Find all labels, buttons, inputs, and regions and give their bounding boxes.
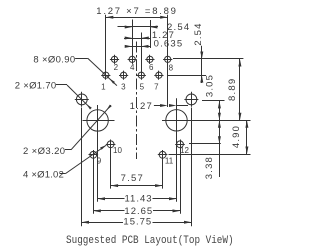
svg-text:4 ×Ø1.02: 4 ×Ø1.02 (23, 169, 64, 180)
svg-text:3.05: 3.05 (205, 74, 216, 97)
svg-text:5: 5 (140, 83, 145, 92)
svg-text:12: 12 (180, 146, 189, 155)
svg-text:1.27: 1.27 (130, 101, 153, 112)
svg-text:3: 3 (121, 83, 126, 92)
svg-text:8: 8 (169, 64, 174, 73)
svg-text:2: 2 (114, 63, 119, 72)
svg-text:3.38: 3.38 (204, 156, 215, 179)
svg-text:2 ×Ø1.70: 2 ×Ø1.70 (15, 81, 57, 92)
svg-text:1: 1 (101, 83, 106, 92)
svg-text:11.43: 11.43 (124, 194, 152, 205)
svg-text:15.75: 15.75 (123, 217, 152, 228)
svg-text:2.54: 2.54 (193, 22, 204, 45)
svg-text:8 ×Ø0.90: 8 ×Ø0.90 (33, 54, 75, 65)
svg-text:2 ×Ø3.20: 2 ×Ø3.20 (23, 146, 66, 157)
svg-text:9: 9 (97, 157, 102, 166)
svg-text:Suggested PCB Layout(Top VieW): Suggested PCB Layout(Top VieW) (66, 235, 234, 247)
svg-text:4: 4 (130, 63, 135, 72)
svg-text:12.65: 12.65 (124, 206, 153, 217)
svg-text:0.635: 0.635 (154, 39, 184, 50)
svg-text:8.89: 8.89 (227, 78, 238, 101)
svg-text:7.57: 7.57 (121, 173, 144, 184)
svg-text:1.27 ×7 =8.89: 1.27 ×7 =8.89 (96, 6, 177, 17)
svg-text:4.90: 4.90 (231, 125, 242, 148)
svg-text:7: 7 (154, 83, 159, 92)
svg-text:10: 10 (113, 146, 122, 155)
svg-text:6: 6 (149, 63, 154, 72)
svg-text:11: 11 (165, 157, 174, 166)
